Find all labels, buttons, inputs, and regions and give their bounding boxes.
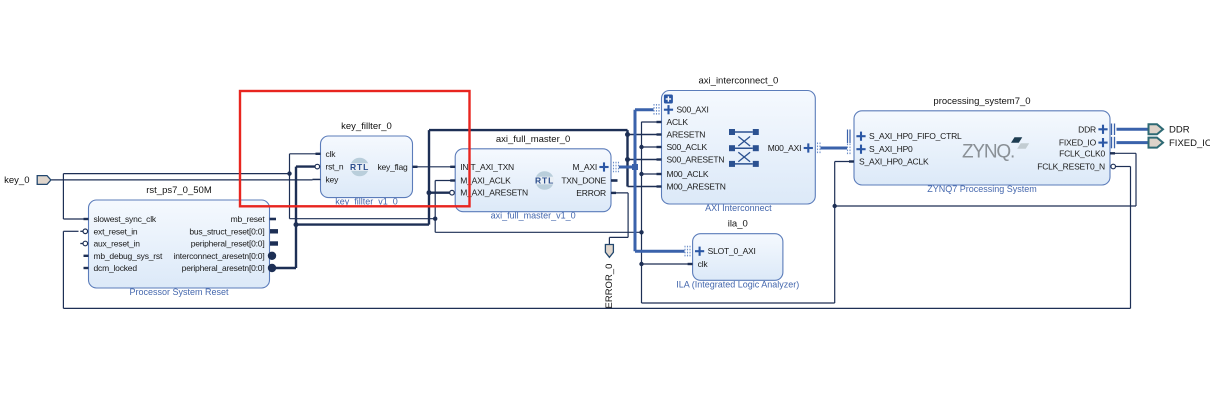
svg-text:clk: clk [698, 259, 709, 269]
svg-text:dcm_locked: dcm_locked [94, 263, 138, 273]
svg-text:M00_ARESETN: M00_ARESETN [667, 182, 726, 192]
svg-text:AXI Interconnect: AXI Interconnect [705, 203, 772, 213]
svg-text:ARESETN: ARESETN [667, 130, 706, 140]
svg-text:TXN_DONE: TXN_DONE [561, 176, 606, 186]
svg-text:mb_reset: mb_reset [231, 214, 266, 224]
svg-text:processing_system7_0: processing_system7_0 [933, 96, 1030, 107]
svg-text:S_AXI_HP0_FIFO_CTRL: S_AXI_HP0_FIFO_CTRL [869, 131, 962, 141]
svg-text:mb_debug_sys_rst: mb_debug_sys_rst [94, 251, 163, 261]
svg-text:key_fillter_0: key_fillter_0 [341, 121, 392, 132]
svg-text:clk: clk [326, 149, 337, 159]
svg-text:RTL: RTL [350, 162, 369, 172]
svg-text:key_flag: key_flag [377, 162, 408, 172]
svg-text:INIT_AXI_TXN: INIT_AXI_TXN [460, 162, 514, 172]
svg-text:ERROR_0: ERROR_0 [604, 264, 615, 309]
svg-text:key: key [326, 174, 340, 184]
svg-text:SLOT_0_AXI: SLOT_0_AXI [708, 246, 756, 256]
svg-text:ERROR: ERROR [576, 188, 606, 198]
svg-text:M00_AXI: M00_AXI [768, 143, 802, 153]
svg-text:axi_interconnect_0: axi_interconnect_0 [699, 76, 779, 87]
svg-text:rst_ps7_0_50M: rst_ps7_0_50M [146, 185, 212, 196]
svg-text:ext_reset_in: ext_reset_in [94, 226, 138, 236]
svg-text:DDR: DDR [1078, 124, 1096, 134]
svg-text:slowest_sync_clk: slowest_sync_clk [94, 214, 157, 224]
svg-text:aux_reset_in: aux_reset_in [94, 239, 141, 249]
svg-text:FCLK_CLK0: FCLK_CLK0 [1059, 148, 1105, 158]
svg-text:ila_0: ila_0 [728, 219, 748, 230]
svg-text:M00_ACLK: M00_ACLK [667, 169, 709, 179]
svg-text:FIXED_IO: FIXED_IO [1059, 138, 1097, 148]
svg-text:S00_AXI: S00_AXI [677, 105, 709, 115]
svg-text:Processor System Reset: Processor System Reset [129, 287, 229, 297]
svg-text:M_AXI: M_AXI [572, 162, 597, 172]
svg-text:ZYNQ7 Processing System: ZYNQ7 Processing System [927, 184, 1037, 194]
svg-text:S00_ACLK: S00_ACLK [667, 142, 708, 152]
svg-text:rst_n: rst_n [326, 162, 344, 172]
svg-text:M_AXI_ACLK: M_AXI_ACLK [460, 176, 511, 186]
svg-text:axi_full_master_0: axi_full_master_0 [496, 134, 570, 145]
svg-text:S_AXI_HP0_ACLK: S_AXI_HP0_ACLK [859, 157, 929, 167]
svg-text:peripheral_aresetn[0:0]: peripheral_aresetn[0:0] [182, 263, 265, 273]
svg-text:interconnect_aresetn[0:0]: interconnect_aresetn[0:0] [174, 251, 265, 261]
svg-text:peripheral_reset[0:0]: peripheral_reset[0:0] [191, 239, 265, 249]
svg-text:bus_struct_reset[0:0]: bus_struct_reset[0:0] [189, 226, 264, 236]
svg-text:S00_ARESETN: S00_ARESETN [667, 155, 725, 165]
svg-text:ACLK: ACLK [667, 117, 689, 127]
svg-text:key_0: key_0 [4, 175, 29, 186]
svg-text:FIXED_IO: FIXED_IO [1169, 138, 1210, 149]
svg-text:FCLK_RESET0_N: FCLK_RESET0_N [1037, 162, 1105, 172]
svg-text:RTL: RTL [535, 176, 554, 186]
svg-text:axi_full_master_v1_0: axi_full_master_v1_0 [491, 211, 576, 221]
svg-text:S_AXI_HP0: S_AXI_HP0 [869, 144, 913, 154]
svg-text:DDR: DDR [1169, 125, 1190, 136]
svg-text:ILA (Integrated Logic Analyzer: ILA (Integrated Logic Analyzer) [676, 279, 799, 289]
svg-text:ZYNQ.: ZYNQ. [962, 141, 1014, 162]
